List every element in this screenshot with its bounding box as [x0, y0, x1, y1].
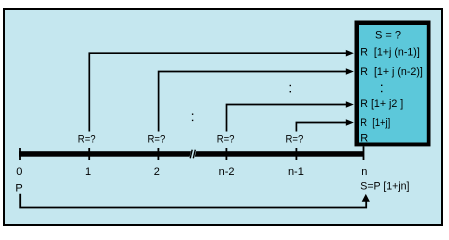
svg-text:2: 2 — [154, 166, 160, 178]
svg-text:0: 0 — [16, 166, 22, 178]
arrow from n-1 to box row 1+j — [296, 123, 346, 132]
svg-text:R=?: R=? — [217, 133, 235, 145]
tick n — [363, 146, 365, 160]
svg-text:R [1+j (n-1)]: R [1+j (n-1)] — [360, 47, 420, 59]
tick n-2 — [226, 148, 228, 160]
svg-text:R=?: R=? — [148, 133, 166, 145]
mid ellipsis left — [192, 114, 193, 115]
timeline break slash 1 — [190, 150, 192, 159]
arrow from P to S — [20, 194, 366, 208]
svg-text:R=?: R=? — [78, 133, 96, 145]
svg-text:R [1+ j2 ]: R [1+ j2 ] — [360, 98, 403, 110]
timeline break gap — [190, 151, 197, 157]
tick 2 — [158, 148, 160, 160]
tick n-1 — [296, 148, 298, 160]
tick 0 — [19, 148, 21, 160]
svg-text:R=?: R=? — [286, 133, 304, 145]
sum box S fill — [359, 25, 427, 143]
svg-text:n-1: n-1 — [288, 166, 304, 178]
svg-text:R: R — [360, 133, 368, 145]
svg-text:R [1+j]: R [1+j] — [360, 117, 390, 129]
tick 1 — [88, 148, 90, 160]
box ellipsis — [381, 85, 382, 86]
svg-text:S = ?: S = ? — [375, 30, 401, 42]
arrow from 1 to box row n-1 — [89, 53, 346, 131]
sum box S border — [355, 21, 431, 147]
svg-text:n: n — [361, 166, 367, 178]
mid ellipsis right — [290, 85, 291, 86]
svg-text:n-2: n-2 — [219, 166, 235, 178]
arrow from n-2 to box row j2 — [227, 105, 347, 132]
timeline bar — [19, 151, 364, 157]
arrow from 2 to box row n-2 — [159, 72, 347, 132]
timeline break slash 2 — [193, 150, 195, 159]
svg-text:R [1+ j (n-2)]: R [1+ j (n-2)] — [360, 66, 423, 78]
svg-text:S=P [1+jn]: S=P [1+jn] — [360, 180, 409, 192]
svg-text:1: 1 — [85, 166, 91, 178]
svg-text:P: P — [15, 182, 22, 194]
